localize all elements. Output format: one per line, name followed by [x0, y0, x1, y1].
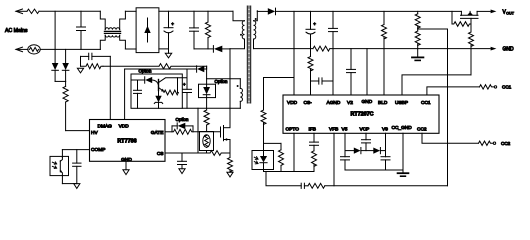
svg-text:BLD: BLD	[378, 100, 388, 106]
wire HV join	[55, 80, 66, 82]
resistor R1 HV	[63, 81, 68, 130]
wire clamp internal top	[131, 79, 145, 81]
wire AGND pin	[332, 49, 334, 95]
wire drain vertical	[229, 49, 231, 128]
svg-text:+: +	[171, 21, 174, 26]
wire gate M2	[470, 18, 472, 32]
node dot secondary polarity	[255, 18, 257, 20]
ground chassis secondary	[412, 49, 423, 61]
capacitor C3 snubber	[190, 11, 199, 49]
wire USBP	[402, 75, 471, 95]
diode D6 clamp internal	[145, 77, 159, 85]
resistor R10 shunt	[313, 46, 330, 51]
terminal CC1	[494, 85, 511, 90]
common-mode choke L1	[100, 11, 125, 49]
diode D5 VDD rectifier	[197, 66, 207, 72]
thermistor NTC option	[200, 132, 214, 154]
diode D4 option	[203, 66, 210, 110]
wire LED anode link	[264, 142, 282, 144]
capacitor C13 comp	[301, 183, 308, 188]
svg-text:GND: GND	[362, 99, 373, 105]
AC input terminal N	[16, 47, 28, 52]
wire aux return	[182, 107, 240, 109]
svg-text:IFB: IFB	[309, 126, 316, 132]
resistor R9 sense	[228, 153, 233, 172]
resistor R20 opto parallel	[279, 143, 284, 171]
wire GATE	[165, 131, 172, 133]
wire VOUT rail	[276, 10, 462, 12]
resistor R16 CC2	[479, 141, 493, 145]
svg-text:CC2: CC2	[417, 126, 427, 132]
wire CC_GND	[402, 133, 404, 172]
wire comp to FB	[325, 185, 448, 187]
transformer T1 primary winding	[242, 21, 244, 39]
svg-text:GATE: GATE	[151, 130, 164, 136]
diode D9 pump	[345, 148, 373, 154]
wire CC1	[427, 87, 480, 95]
capacitor C6 DMAG filter	[81, 53, 111, 59]
wire option feed drop	[206, 66, 208, 69]
wire VDD U3	[293, 11, 295, 95]
transformer T1 primary bottom wire	[230, 39, 245, 49]
svg-text:VFB: VFB	[329, 126, 338, 132]
svg-text:V5: V5	[342, 126, 348, 132]
wire choke to bridge top	[125, 10, 136, 12]
capacitor C11 output	[329, 11, 338, 48]
svg-text:OPTO: OPTO	[286, 126, 300, 132]
wire VFB	[333, 133, 335, 186]
resistor R11 CS- filter	[308, 49, 313, 95]
svg-text:CS: CS	[157, 151, 164, 157]
transformer T1 primary top wire	[233, 11, 245, 20]
wire snubber bottom	[194, 48, 213, 50]
svg-text:CC2: CC2	[501, 141, 511, 146]
wire GND pin U3	[366, 49, 368, 95]
ground U1	[123, 170, 129, 175]
thermistor RV1	[28, 45, 40, 54]
HV startup diode D2	[62, 49, 69, 81]
resistor R8 CS	[210, 151, 230, 156]
ground bridge	[165, 53, 171, 58]
wire HV to pin	[66, 130, 90, 132]
svg-text:+: +	[183, 82, 186, 87]
resistor R6 option feed	[159, 64, 207, 69]
resistor R7 gate	[172, 129, 193, 134]
capacitor C4 VDD	[183, 69, 192, 108]
svg-text:CC1: CC1	[502, 85, 512, 90]
node DMAG left	[80, 56, 82, 66]
wire opto feed	[264, 78, 295, 111]
svg-text:VDD: VDD	[287, 100, 298, 106]
wire AC top	[39, 10, 100, 12]
wire FB vertical	[447, 29, 449, 186]
resistor R17 gate pullup	[452, 11, 471, 26]
ground DMAG	[77, 68, 83, 73]
node gate right bar	[192, 126, 194, 132]
svg-text:AGND: AGND	[327, 100, 341, 106]
ground chassis CC	[398, 173, 409, 176]
capacitor C7 CS filter	[178, 153, 187, 169]
wire comp drop	[266, 172, 301, 186]
capacitor C2 bulk	[164, 11, 174, 49]
diode D10 pump	[373, 148, 385, 154]
fuse F1	[27, 9, 39, 13]
svg-text:Option: Option	[176, 117, 189, 122]
resistor R18 gate	[469, 32, 474, 75]
node gate left bar	[171, 126, 173, 132]
svg-text:Option: Option	[139, 68, 152, 73]
wire GND rail left	[254, 48, 314, 50]
wire bridge to rail	[159, 10, 233, 12]
svg-text:GND: GND	[503, 47, 515, 53]
option box clamp	[131, 74, 182, 108]
svg-text:VDD: VDD	[119, 123, 130, 129]
svg-text:CC_GND: CC_GND	[392, 125, 413, 131]
wire V5	[344, 133, 346, 150]
wire GND rail right	[330, 48, 490, 50]
transformer T1 core	[247, 6, 250, 103]
node dot primary polarity	[240, 34, 242, 36]
transistor Q1	[159, 78, 188, 92]
ground COMP	[74, 184, 80, 189]
wire COMP gnd link	[62, 183, 76, 185]
wire GND pin	[125, 161, 127, 170]
wire VDD line primary	[125, 68, 197, 70]
wire VDD pin vertical	[124, 69, 126, 120]
resistor R21 comp	[308, 183, 325, 188]
X-capacitor C1	[77, 11, 86, 49]
ground CS filter	[179, 169, 185, 174]
svg-text:HV: HV	[91, 130, 98, 136]
svg-text:V9: V9	[382, 126, 388, 132]
svg-text:CS-: CS-	[304, 100, 313, 106]
diode D3 clamp	[213, 46, 230, 53]
capacitor C17 V9	[381, 133, 390, 170]
svg-text:AC Mains: AC Mains	[5, 28, 28, 34]
capacitor C12 V2	[347, 49, 356, 95]
IC U1 RT7786	[90, 120, 166, 164]
svg-text:+: +	[313, 21, 316, 26]
capacitor C5 clamp	[134, 80, 142, 108]
wire OPTO node	[264, 171, 315, 173]
capacitor C8 COMP	[73, 150, 81, 184]
wire bridge minus	[159, 49, 169, 53]
resistor R12 bleed	[382, 11, 387, 95]
svg-text:RT7207C: RT7207C	[350, 112, 373, 118]
resistor R19 opto	[261, 110, 266, 143]
transistor M2 load switch	[461, 11, 479, 18]
terminal VOUT	[477, 10, 515, 16]
wire CS line	[165, 152, 210, 154]
svg-text:VCP: VCP	[360, 126, 370, 132]
capacitor C15 VCP	[362, 133, 371, 150]
wire choke to bridge bottom	[125, 48, 136, 50]
wire gate to mosfet	[193, 131, 221, 133]
svg-text:GND: GND	[121, 157, 132, 163]
capacitor C9 output bulk	[306, 11, 316, 48]
resistor R13 divider top	[415, 11, 420, 31]
transistor M1	[221, 126, 231, 154]
ground sense	[227, 172, 233, 177]
capacitor C14 IFB	[310, 133, 319, 151]
wire aux gnd drop	[197, 108, 199, 153]
capacitor C16 V5	[341, 151, 350, 170]
wire pump gnd	[345, 169, 403, 171]
AC input terminal L	[16, 9, 27, 14]
optocoupler U2 LED side	[252, 143, 274, 171]
resistor R5 DMAG	[81, 64, 104, 69]
terminal GND	[491, 47, 514, 53]
HV startup diode D1	[52, 11, 59, 81]
svg-text:Option: Option	[215, 79, 228, 84]
svg-text:V2: V2	[347, 100, 353, 106]
resistor R4 clamp	[164, 78, 178, 95]
svg-text:RT7786: RT7786	[117, 138, 136, 144]
resistor R22 IFB	[312, 151, 317, 172]
svg-text:OUT: OUT	[506, 12, 514, 16]
resistor R15 CC1	[480, 85, 494, 89]
wire CC2	[422, 133, 479, 143]
wire FB node	[418, 28, 448, 30]
terminal CC2	[493, 141, 510, 146]
wire COMP	[62, 149, 89, 151]
wire AC bottom	[40, 48, 100, 50]
resistor R2 snubber	[205, 11, 210, 49]
node dot aux polarity	[237, 85, 239, 87]
bridge rectifier BD1	[136, 8, 159, 53]
svg-text:DMAG: DMAG	[98, 123, 113, 129]
wire OPTO pin	[293, 133, 295, 171]
svg-text:USBP: USBP	[395, 100, 408, 106]
diode D8 secondary rectifier	[257, 8, 275, 15]
resistor R3 option	[204, 110, 209, 132]
transformer T1 secondary winding	[254, 11, 258, 49]
IC U3 RT7207C	[283, 95, 439, 133]
capacitor C10 CS-	[311, 78, 334, 84]
option box D4	[199, 84, 216, 97]
zener Z1 clamp	[154, 91, 162, 109]
wire DMAG pin	[109, 56, 111, 119]
wire DMAG option	[103, 65, 159, 67]
svg-text:CC1: CC1	[421, 100, 431, 106]
resistor R14 divider bottom	[415, 31, 420, 49]
diode D7 gate	[172, 123, 193, 129]
svg-text:COMP: COMP	[91, 147, 105, 153]
optocoupler U2 transistor side	[50, 150, 69, 184]
transformer T1 auxiliary winding	[207, 79, 243, 109]
